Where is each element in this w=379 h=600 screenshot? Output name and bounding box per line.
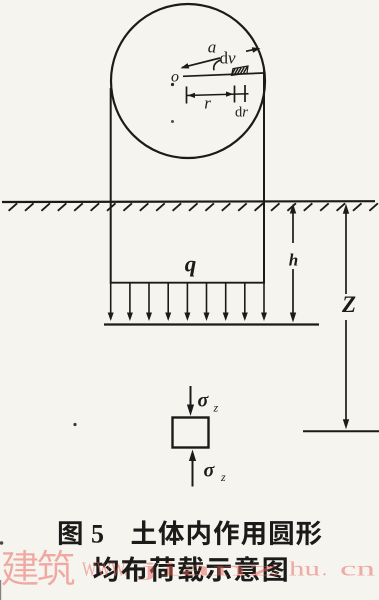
caption line 1: tu 5 (figure 5) bbox=[59, 521, 82, 545]
svg-text:r: r bbox=[204, 94, 211, 113]
dimension r: line with end ticks bbox=[187, 94, 249, 96]
circle: circular loaded area (plan view) bbox=[111, 4, 265, 158]
svg-text:5: 5 bbox=[91, 520, 104, 549]
watermark jianzhu characters bbox=[2, 550, 38, 586]
svg-text:σ: σ bbox=[204, 460, 216, 482]
svg-text:σ: σ bbox=[198, 390, 210, 412]
reference line at depth Z bbox=[303, 430, 379, 432]
shaded area element dA near circle edge bbox=[232, 66, 249, 75]
svg-text:z: z bbox=[213, 401, 219, 415]
ground surface line bbox=[2, 200, 375, 203]
svg-text:hu: hu bbox=[289, 559, 320, 581]
sigma-z arrow bottom bbox=[192, 461, 194, 487]
caption line 1 text bbox=[132, 520, 156, 544]
tick at r+dr bbox=[244, 85, 246, 102]
svg-text:dr: dr bbox=[235, 105, 248, 121]
tick at o side bbox=[186, 87, 188, 104]
scan edge bottom-left bbox=[0, 580, 1, 600]
soil element rectangle bbox=[173, 418, 209, 448]
svg-text:WWW.: WWW. bbox=[82, 559, 128, 581]
svg-text:q: q bbox=[185, 252, 197, 277]
dimension Z bbox=[345, 208, 347, 295]
svg-text:jianz: jianz bbox=[136, 559, 280, 581]
sigma-z arrow top bbox=[190, 386, 192, 407]
wire: left vertical wall from circle to load area bbox=[110, 88, 112, 284]
svg-text:h: h bbox=[289, 251, 298, 270]
svg-text:cn: cn bbox=[340, 559, 375, 581]
dimension a: radius line with arrowheads both ends bbox=[182, 58, 220, 68]
dimension h bbox=[292, 207, 294, 243]
wire: horizontal radius line from o to circle edge bbox=[183, 73, 264, 76]
svg-text:z: z bbox=[220, 470, 226, 484]
ground hatch marks bbox=[9, 203, 378, 211]
svg-text:a: a bbox=[208, 38, 217, 57]
wire: right vertical wall from circle to load area bbox=[263, 68, 265, 284]
angle arc at dv bbox=[214, 60, 221, 70]
load top line bbox=[111, 282, 264, 284]
tick at r bbox=[234, 86, 236, 103]
svg-text:.: . bbox=[322, 559, 327, 581]
svg-text:Z: Z bbox=[341, 292, 356, 317]
speckles (scan artifacts) bbox=[73, 423, 76, 426]
svg-text:dv: dv bbox=[220, 49, 237, 68]
caption line 2 text bbox=[93, 556, 118, 581]
load bottom line bbox=[104, 323, 319, 325]
distributed load arrows q bbox=[110, 283, 112, 315]
